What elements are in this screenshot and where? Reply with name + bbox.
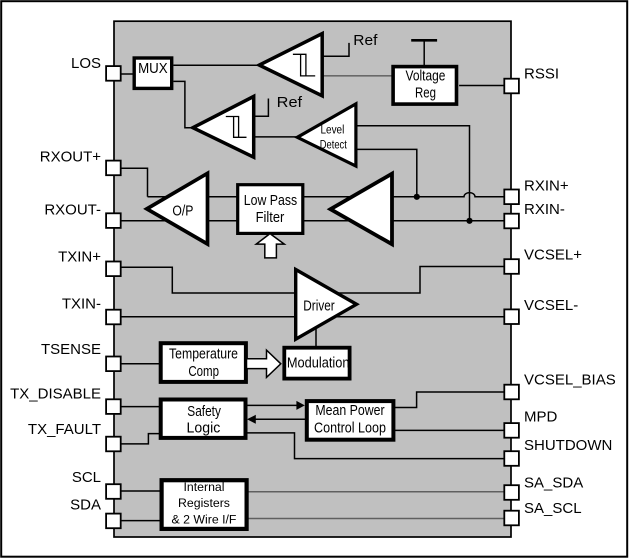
pin RSSI [504,79,519,94]
svg-text:RXOUT-: RXOUT- [44,201,101,218]
pin VCSEL_BIAS [504,385,519,400]
block arrow temperature comp to modulation [247,350,281,377]
up block arrow under low pass filter [256,234,284,258]
svg-text:TX_FAULT: TX_FAULT [28,421,101,438]
pin RXOUT- [106,213,121,228]
svg-text:VCSEL_BIAS: VCSEL_BIAS [524,371,616,388]
wire SDA to Internal Registers [121,520,161,522]
safety logic box [161,400,246,438]
svg-text:Low Pass: Low Pass [244,192,297,209]
chip body [114,21,511,537]
svg-text:Mean Power: Mean Power [315,402,384,419]
pin VCSEL+ [504,259,519,274]
wire TSENSE to Temperature Comp [121,363,161,365]
svg-text:Comp: Comp [188,363,219,380]
svg-text:VCSEL+: VCSEL+ [524,247,582,264]
svg-text:Temperature: Temperature [169,345,238,362]
pins left [106,66,519,528]
svg-text:TXIN-: TXIN- [62,296,101,313]
svg-text:RXIN+: RXIN+ [524,177,569,194]
svg-text:SHUTDOWN: SHUTDOWN [524,437,612,454]
mean power control loop box [307,401,394,440]
wire Voltage Reg to RSSI pin [459,85,504,87]
wire Mean Power to VCSEL_BIAS [395,392,504,408]
pin LOS [106,66,121,81]
svg-text:O/P: O/P [172,202,193,219]
temperature comp box [161,343,246,382]
svg-text:Voltage: Voltage [406,67,446,84]
low pass filter box [238,185,303,234]
supply bar above Voltage Reg [411,39,437,42]
svg-text:Registers: Registers [178,496,230,510]
svg-text:MPD: MPD [524,409,558,426]
svg-text:LOS: LOS [71,55,101,72]
junction dot on RXIN+ line [414,194,420,200]
pin RXIN- [504,214,519,229]
wire RXIN+ line through LPF and amp, hop over vertical feed [148,193,505,197]
wire TX_FAULT to Safety Logic [121,434,161,444]
right pin labels [524,65,616,517]
svg-text:Detect: Detect [320,140,348,152]
wire Mean Power to Safety Logic [255,418,305,420]
svg-text:VCSEL-: VCSEL- [524,297,578,314]
pin TXIN+ [106,262,121,277]
svg-text:MUX: MUX [138,60,168,77]
pin TX_DISABLE [106,399,121,414]
pin TX_FAULT [106,437,121,452]
wire TX_DISABLE to Safety Logic [121,406,161,408]
arrowhead into safety logic [247,415,256,424]
svg-text:TX_DISABLE: TX_DISABLE [10,385,101,402]
wire LOS to MUX [113,73,132,75]
pin SCL [106,484,121,499]
wire Ref stub comparator1 [322,43,349,56]
pin SHUTDOWN [504,451,519,466]
svg-text:TSENSE: TSENSE [41,341,101,358]
pin TSENSE [106,357,121,372]
svg-text:SA_SCL: SA_SCL [524,500,582,517]
wire MUX to comparator2 apex [173,81,193,127]
svg-text:Safety: Safety [187,403,221,420]
svg-text:Logic: Logic [187,419,221,436]
svg-text:Driver: Driver [303,298,334,315]
component texts [138,32,445,527]
svg-text:& 2 Wire I/F: & 2 Wire I/F [172,513,237,527]
wire Internal Registers to SA_SCL [245,518,504,520]
modulation box [284,348,349,379]
svg-text:Modulation: Modulation [287,354,350,371]
mux U-MUX box [134,58,172,88]
svg-text:Reg: Reg [415,85,436,102]
svg-text:RXOUT+: RXOUT+ [40,149,102,166]
svg-text:RXIN-: RXIN- [524,201,565,218]
voltage regulator box [393,67,456,105]
wire Level Detect output to comparator2 input [254,136,298,138]
pin SDA [106,514,121,529]
comparator 1 (schmitt) [259,34,322,96]
hysteresis glyph comparator 1 [293,54,315,76]
left pin labels [10,55,101,514]
svg-text:Ref: Ref [353,32,378,49]
wire SHUTDOWN [247,433,504,459]
wire Ref stub comparator2 [254,99,269,117]
svg-text:RSSI: RSSI [524,65,559,82]
wire Mean Power to MPD [395,429,504,431]
internal registers box [162,480,247,529]
wire RXOUT+ routing into O/P [121,168,148,197]
wire SCL to Internal Registers [121,490,161,492]
wire Voltage Reg supply stem [423,42,425,68]
wire RXOUT- / RXIN- line [113,220,504,222]
svg-text:Filter: Filter [256,209,285,226]
pin RXIN+ [504,190,519,205]
driver triangle [296,270,357,340]
arrowhead into mean power [296,401,304,410]
svg-text:SCL: SCL [72,469,101,486]
hysteresis glyph comparator 2 [226,117,247,138]
wire comparator1 input from Voltage Reg (gray) [322,75,393,77]
svg-text:Ref: Ref [277,94,303,111]
wire Internal Registers to SA_SDA [245,491,504,493]
pin RXOUT+ [106,161,121,176]
pin SA_SDA [504,485,519,500]
wire Safety Logic to Mean Power [248,404,298,406]
level detect triangle [297,104,356,166]
pin VCSEL- [504,309,519,324]
wire TXIN- / VCSEL- line [113,316,504,318]
svg-text:Internal: Internal [183,480,224,494]
wire TXIN+ to driver and VCSEL+ [121,267,504,294]
svg-text:Level: Level [321,125,345,137]
pin SA_SCL [504,511,519,526]
wire Level Detect upper input [356,126,470,221]
O/P amplifier triangle [147,173,208,244]
svg-text:TXIN+: TXIN+ [58,248,101,265]
input amplifier triangle [331,174,393,245]
wire MUX to comparator1 apex [173,64,259,66]
svg-text:SA_SDA: SA_SDA [524,474,583,491]
pin TXIN- [106,310,121,325]
wire Level Detect lower input [356,149,417,196]
junction dot on RXIN- line [466,218,472,224]
comparator 2 (schmitt) [193,96,254,157]
svg-text:SDA: SDA [70,497,101,514]
wire driver to Modulation [315,320,317,347]
svg-text:Control Loop: Control Loop [314,419,386,436]
pin MPD [504,423,519,438]
